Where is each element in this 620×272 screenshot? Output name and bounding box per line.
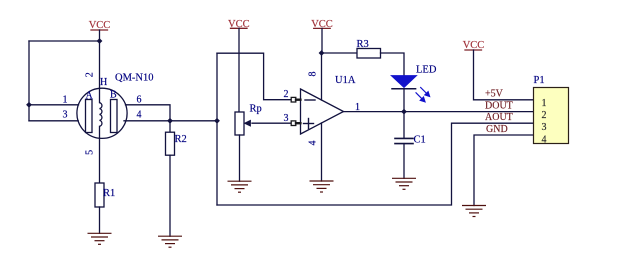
wire VCC3 to R3 [322,52,358,54]
junction node VCC3/pin8/R3 [319,50,325,56]
svg-text:4: 4 [542,134,547,145]
wire sensor pin 4 to node [124,120,217,122]
power symbol VCC (pot supply) [231,27,248,29]
svg-text:1: 1 [63,95,68,106]
junction node pin1/VCC [26,102,32,108]
svg-text:3: 3 [63,110,68,121]
svg-text:AOUT: AOUT [485,112,513,123]
wire rail top to op-amp pin2 [217,53,292,99]
op-amp input symbol pin3 [291,121,300,126]
resistor R3 body [357,49,381,59]
wire VCC2 to pot [238,28,240,112]
svg-text:LED: LED [416,65,437,76]
resistor R2 body [166,132,175,155]
wire rail bottom to AOUT [217,123,534,205]
svg-text:5: 5 [85,150,96,155]
capacitor C1 top lead [403,112,405,138]
svg-text:3: 3 [284,113,289,124]
svg-text:4: 4 [308,141,319,146]
power symbol VCC (left, heater supply) [91,29,108,31]
svg-text:2: 2 [85,72,96,77]
svg-text:H: H [100,77,107,88]
ground under R1 [88,233,112,244]
sensor electrode B plate [111,100,118,133]
svg-text:R1: R1 [103,188,115,199]
svg-text:1: 1 [542,98,547,109]
wire sensor pin 6 [126,105,171,121]
wire heater pin 2 [99,41,101,88]
wire wiper to op-amp pin3 [252,122,292,124]
op-amp minus sign [305,99,315,101]
ground GND net [462,206,486,217]
svg-text:R2: R2 [175,134,187,145]
connector P1 body [534,88,569,144]
wire top-left horizontal [29,40,100,42]
svg-text:DOUT: DOUT [485,100,513,111]
svg-text:8: 8 [308,72,319,77]
wire AOUT rail vertical [216,53,218,205]
junction node AOUT rail [214,118,220,124]
wire LED to output node [403,89,405,112]
wire op-amp pin 4 to ground [321,123,323,181]
op-amp U1A triangle [301,89,344,134]
svg-text:P1: P1 [534,75,545,86]
ground under Rp [228,181,252,192]
svg-text:U1A: U1A [335,75,356,86]
svg-text:GND: GND [486,124,508,135]
power symbol VCC (op-amp supply) [314,27,331,29]
junction node R2 top [167,118,173,124]
svg-text:C1: C1 [414,135,426,146]
svg-text:VCC: VCC [311,19,333,30]
svg-text:2: 2 [284,89,289,100]
wire sensor pin 5 to R1 [99,138,101,183]
wire GND P1 pin4 [474,135,534,206]
ground under C1 [392,178,416,189]
svg-text:VCC: VCC [463,40,485,51]
wire R2 top stem [169,121,171,132]
LED light arrow 2 [416,93,425,102]
svg-text:B: B [110,90,117,101]
svg-text:6: 6 [137,95,142,106]
wire pot to ground [239,135,241,181]
svg-text:QM-N10: QM-N10 [115,73,154,84]
ground under R2 [158,236,182,247]
wire sensor pin 3 [29,120,78,122]
svg-text:+5V: +5V [485,89,504,100]
svg-text:Rp: Rp [250,104,262,115]
potentiometer Rp body [235,112,244,135]
wire op-amp pin 8 to VCC [321,53,323,100]
svg-text:VCC: VCC [228,19,250,30]
junction node LED/C1/DOUT [401,109,407,115]
resistor R1 body [95,183,104,207]
wire op-amp output / DOUT [344,111,534,113]
power symbol VCC (connector supply) [465,49,482,51]
sensor heater coil [100,88,102,138]
op-amp plus sign [304,119,314,129]
wire VCC1 stem [99,30,101,41]
sensor QM-N10 body circle [77,88,127,138]
junction node VCC1 [97,38,103,44]
capacitor C1 plates [395,138,413,143]
wire VCC4 to P1 pin1 [474,50,534,100]
svg-text:VCC: VCC [89,20,111,31]
wire R2 to ground [169,155,171,236]
wire left vertical to electrode A [28,41,30,121]
svg-text:3: 3 [542,122,547,133]
LED anode triangle [392,76,416,87]
svg-text:2: 2 [542,110,547,121]
svg-text:1: 1 [355,102,360,113]
wire C1 to ground [403,144,405,179]
op-amp input symbol pin2 [291,97,300,102]
pot wiper arrow [244,120,250,126]
svg-text:R3: R3 [357,39,369,50]
wire sensor pin 1 [29,104,79,106]
LED cathode bar [392,88,416,90]
wire R1 to ground [99,207,101,233]
wire R3 to LED [381,53,405,76]
svg-text:4: 4 [137,110,142,121]
ground under op-amp pin4 [310,181,334,192]
svg-text:A: A [86,91,94,102]
wire VCC3 stem [321,28,323,53]
sensor electrode A plate [86,100,93,133]
LED light arrow 1 [421,88,430,97]
